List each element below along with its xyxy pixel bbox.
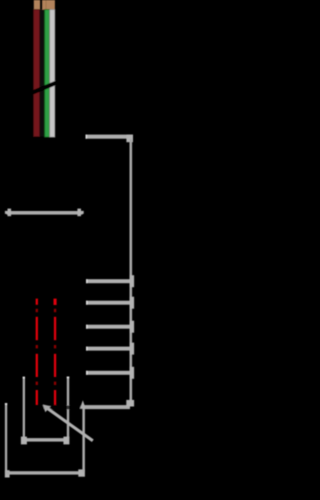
wire maroon xyxy=(34,10,40,137)
leg I vertical xyxy=(67,377,69,439)
pin rung 2 xyxy=(86,301,130,305)
leg C left head xyxy=(5,209,11,217)
flow line right (dash-dot) xyxy=(54,299,57,405)
pin rung 5 tip xyxy=(86,371,88,375)
elbow node B/D xyxy=(126,400,134,407)
wire black xyxy=(40,10,45,137)
bend node E right xyxy=(78,469,85,476)
pin rung 4 xyxy=(86,347,130,351)
elbow node A/B xyxy=(126,135,133,143)
wire green xyxy=(45,10,50,138)
cable break slash xyxy=(27,82,58,95)
copper tip 1 xyxy=(34,0,40,10)
bend node E left xyxy=(5,470,10,477)
bend node H left xyxy=(21,437,27,445)
leg C right head xyxy=(77,209,83,217)
diagonal arrow head xyxy=(43,404,51,412)
wire grey xyxy=(50,10,55,138)
wire A tip highlight xyxy=(86,135,88,139)
pad node 4 xyxy=(130,343,135,355)
flow line left (dash-dot) xyxy=(36,299,38,405)
wire E horizontal xyxy=(6,471,84,474)
wire A horizontal xyxy=(86,135,134,139)
pad node 3 xyxy=(130,321,135,333)
wire H horizontal xyxy=(22,438,69,442)
pin rung 4 tip xyxy=(86,347,88,351)
ribbon cable W1 xyxy=(27,0,58,137)
pin rung 5 xyxy=(86,371,130,375)
up arrow at D end xyxy=(80,400,86,409)
bus B vertical xyxy=(130,139,133,406)
copper tip 2 xyxy=(42,0,55,10)
pin rung 1 xyxy=(86,279,130,283)
pin rung 3 xyxy=(86,325,130,329)
diagonal arrow shaft xyxy=(46,407,93,441)
riser vertical E to D xyxy=(82,406,85,472)
black wire continuation of D (crosses leg I) xyxy=(40,406,83,410)
leg F vertical xyxy=(5,403,7,477)
bend node H right xyxy=(63,437,69,445)
wire D horizontal xyxy=(82,405,130,409)
copper tip seam xyxy=(45,0,48,10)
pin rung 1 tip xyxy=(86,279,88,283)
leg C horizontal xyxy=(7,211,83,215)
leg G vertical xyxy=(23,377,25,439)
leg I tip xyxy=(67,377,69,379)
leg F tip xyxy=(5,403,7,405)
pad node 2 xyxy=(130,297,135,309)
leg G tip xyxy=(23,377,25,379)
pin rung 2 tip xyxy=(86,301,88,305)
pin rung 3 tip xyxy=(86,325,88,329)
pad node 5 xyxy=(130,367,135,379)
pad node 1 xyxy=(130,275,135,287)
